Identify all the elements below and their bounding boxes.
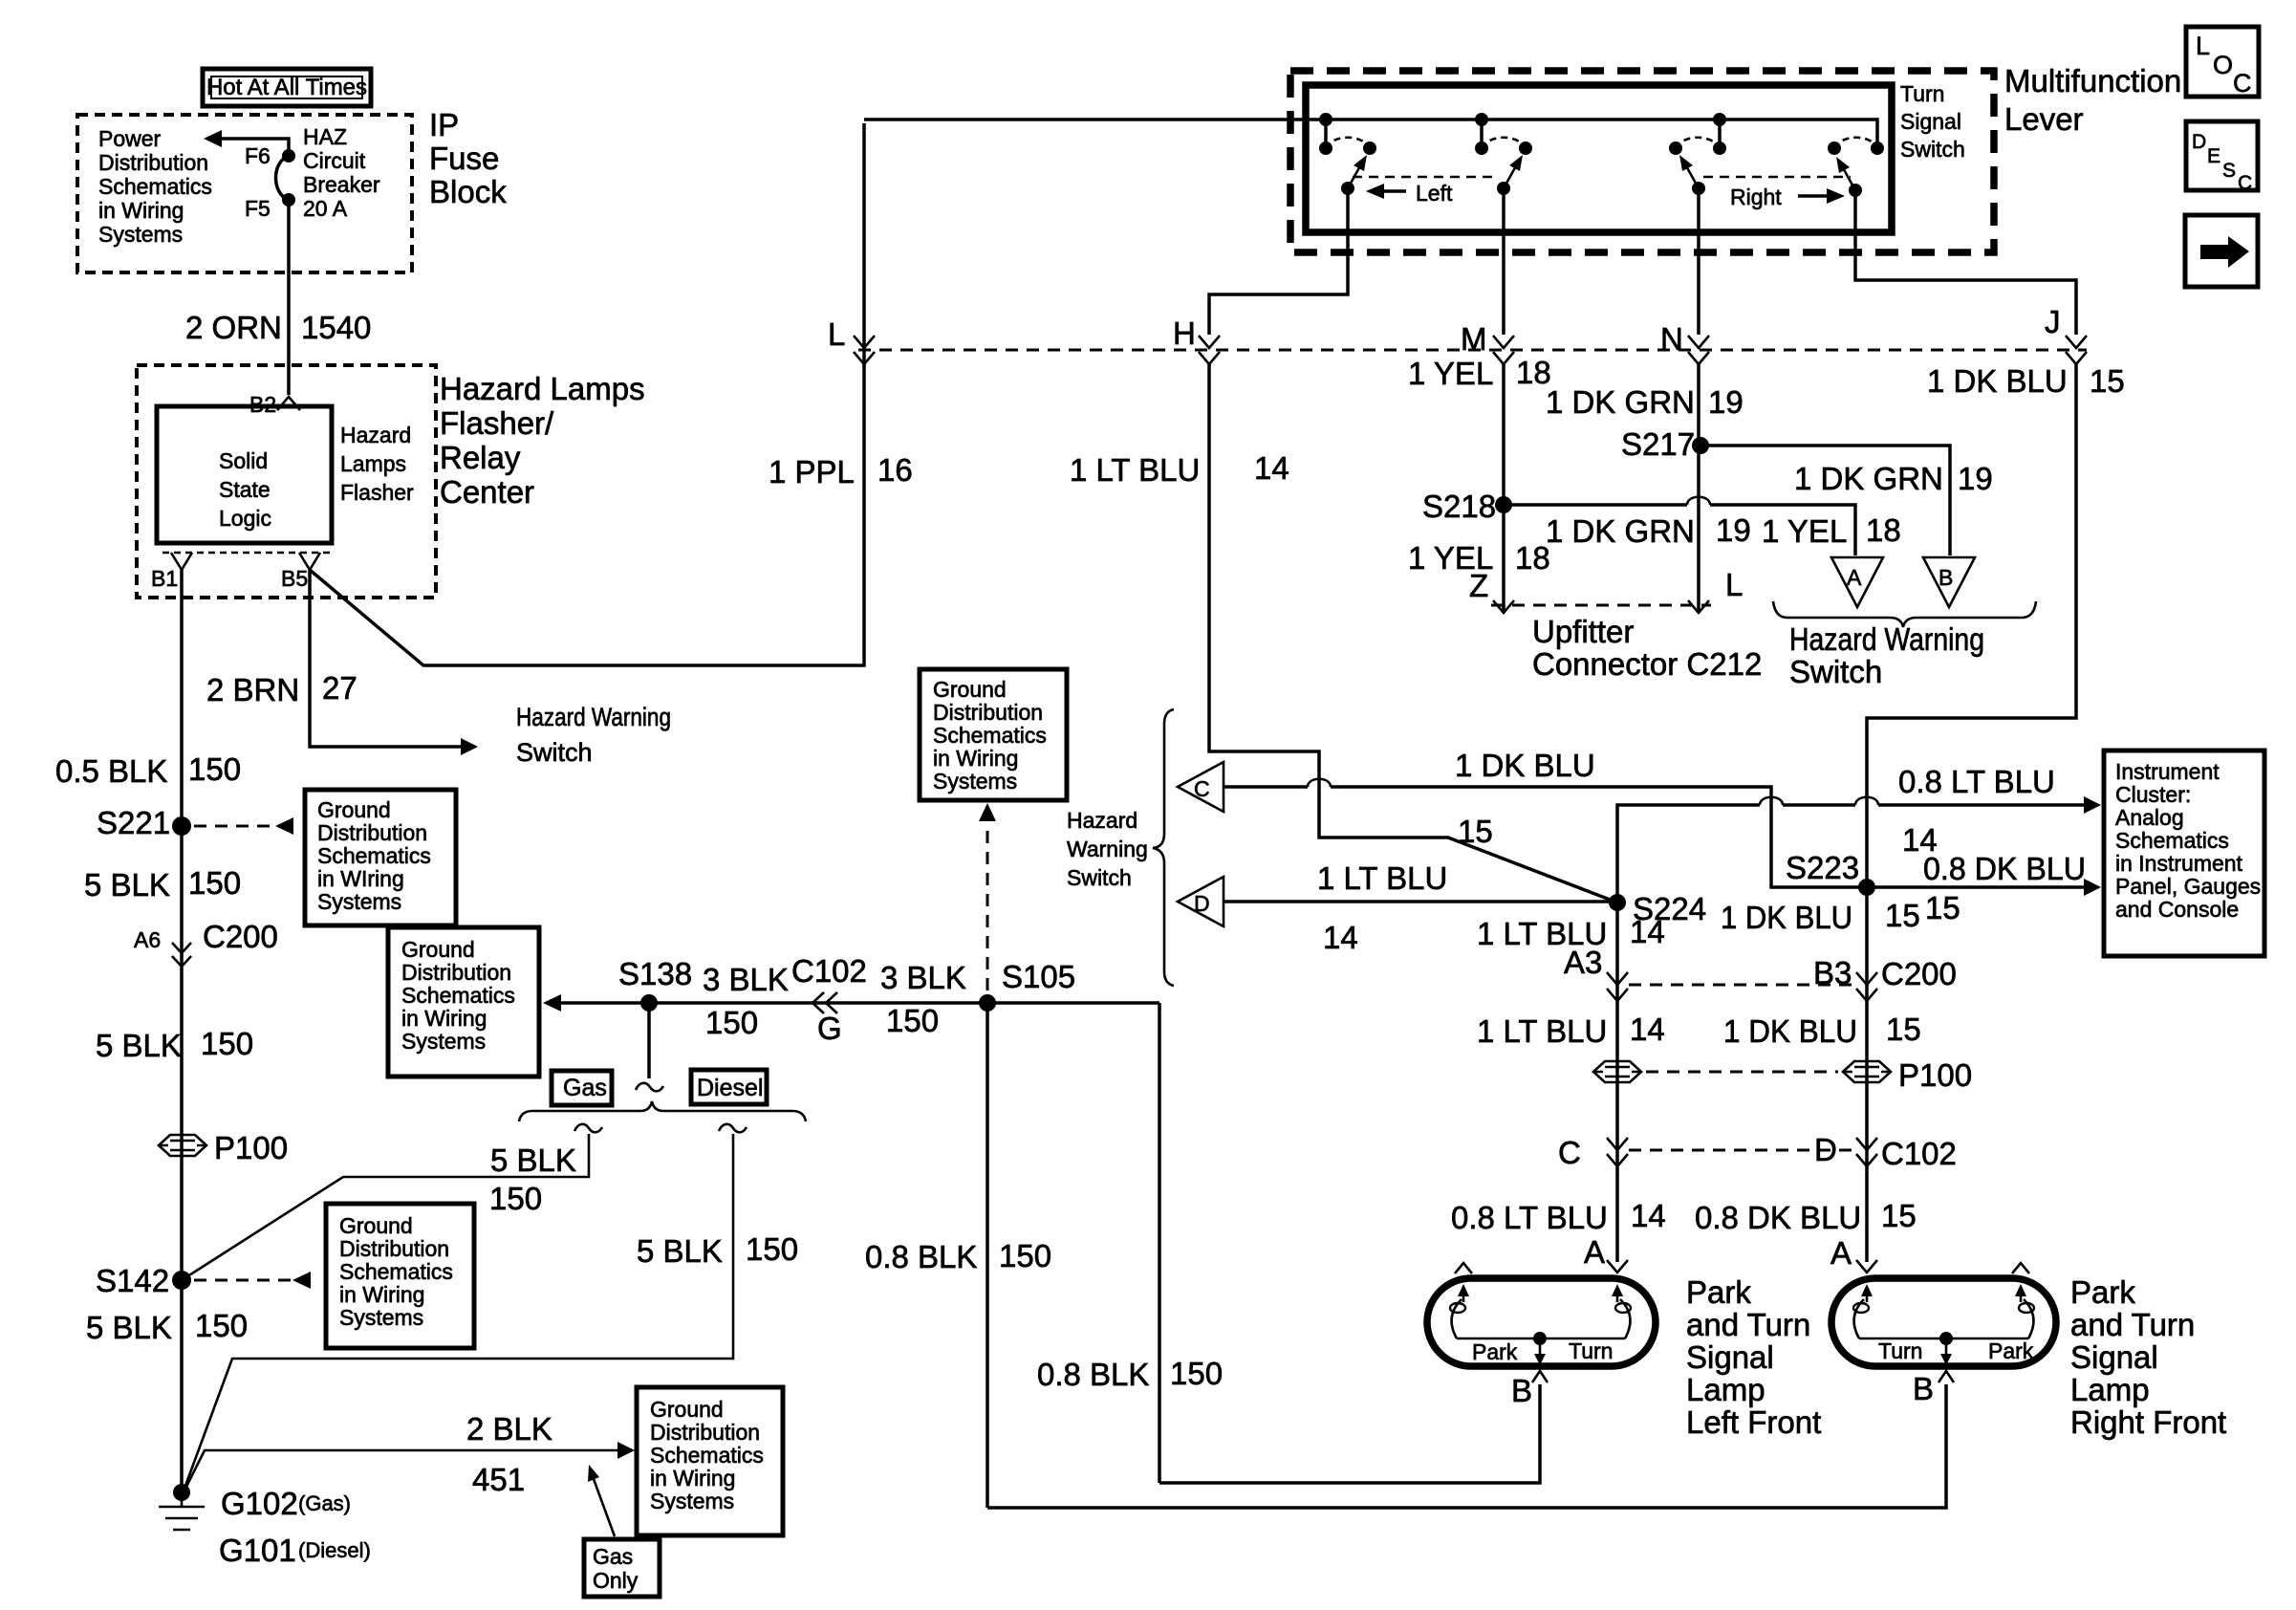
svg-text:1 DK BLU: 1 DK BLU (1455, 748, 1595, 783)
svg-text:15: 15 (1458, 814, 1493, 849)
wire: 0.8 BLK S105 down (986, 1003, 989, 1508)
svg-text:G102: G102 (221, 1486, 298, 1521)
svg-text:Hazard: Hazard (340, 423, 411, 447)
svg-text:Relay: Relay (440, 440, 521, 475)
svg-text:F6: F6 (245, 143, 271, 168)
svg-text:Systems: Systems (98, 222, 183, 247)
switch pole 2 contacts (1475, 113, 1532, 155)
splice S217 (1621, 426, 1709, 462)
svg-text:18: 18 (1515, 540, 1550, 576)
svg-text:Left Front: Left Front (1686, 1404, 1821, 1440)
svg-text:C: C (2233, 69, 2252, 98)
svg-text:20 A: 20 A (303, 196, 348, 221)
dashed reference arrow from S105 up (979, 803, 996, 990)
hazard switch terminal D triangle (1178, 877, 1224, 926)
Power Distribution reference text (98, 126, 212, 247)
svg-text:Breaker: Breaker (303, 172, 380, 197)
pole 3 travel arc (1676, 138, 1720, 148)
pole 1 travel arc (1326, 138, 1370, 148)
DESC box (2186, 121, 2258, 194)
svg-text:C: C (2238, 172, 2252, 194)
svg-text:in WIring: in WIring (317, 866, 404, 891)
wire: C terminal to S223 (1224, 787, 1867, 887)
svg-text:Block: Block (429, 174, 507, 209)
svg-text:S142: S142 (96, 1263, 169, 1298)
C200 dashed line (1629, 984, 1855, 987)
switch pole 3 contacts (1669, 113, 1726, 155)
gas/diesel split squiggle (636, 1083, 663, 1092)
wire: S223 down to lamp (1865, 896, 1869, 1262)
splice S138 (618, 956, 692, 1012)
arrow into Ground Distribution (451) (617, 1442, 635, 1459)
pole 4 travel arc (1834, 138, 1877, 148)
connector H (1173, 315, 1220, 364)
svg-text:L: L (1725, 567, 1743, 602)
svg-text:D: D (2192, 131, 2206, 153)
svg-text:150: 150 (489, 1181, 542, 1216)
node: Hot At All Times box (203, 69, 371, 106)
svg-text:1 DK GRN: 1 DK GRN (1794, 461, 1943, 496)
grommet P100 left (159, 1130, 288, 1165)
connector B1 (151, 553, 192, 598)
splice S105 (979, 959, 1075, 1012)
svg-text:Panel, Gauges: Panel, Gauges (2115, 874, 2261, 899)
svg-text:Ground: Ground (401, 937, 475, 962)
svg-text:2 BLK: 2 BLK (466, 1411, 552, 1447)
hazard warning switch brace (1773, 601, 2036, 627)
svg-text:(Diesel): (Diesel) (298, 1538, 371, 1562)
pole 4 blade (1836, 157, 1862, 197)
svg-text:0.8 DK BLU: 0.8 DK BLU (1923, 851, 2086, 886)
hazard switch terminal A triangle (1831, 557, 1883, 607)
Left arrow (1366, 181, 1453, 206)
wire: ground bus S138 to S105 (561, 1001, 1159, 1005)
right front lamp body (1831, 1278, 2056, 1366)
svg-text:19: 19 (1958, 461, 1993, 496)
Solid State Logic box (157, 406, 332, 543)
diesel branch hook (719, 1124, 747, 1133)
wire: switch feed rail (864, 120, 1877, 144)
svg-text:1 DK GRN: 1 DK GRN (1546, 513, 1695, 549)
svg-text:0.8 BLK: 0.8 BLK (865, 1239, 977, 1274)
jump over H path (1308, 779, 1331, 787)
label G102 (Gas) (221, 1486, 351, 1521)
svg-text:Circuit: Circuit (303, 148, 366, 173)
Hazard Warning Switch label (right) (1789, 621, 1984, 689)
Instrument Cluster reference box (2104, 751, 2264, 956)
svg-text:Park: Park (1472, 1339, 1518, 1364)
Right arrow (1730, 185, 1845, 209)
arrow into instrument cluster (LT BLU) (2084, 796, 2101, 814)
Diesel box (691, 1070, 767, 1104)
svg-text:Turn: Turn (1878, 1338, 1922, 1363)
svg-text:O: O (2213, 51, 2233, 79)
wire: S217 branch to hazard switch B (1700, 446, 1950, 555)
blade link dashed right (1703, 176, 1851, 179)
svg-text:IP: IP (429, 107, 459, 142)
gas/diesel selection brace (519, 1101, 806, 1121)
svg-text:Diesel: Diesel (697, 1075, 763, 1101)
svg-text:Park: Park (1988, 1338, 2034, 1363)
svg-text:Warning: Warning (1067, 837, 1148, 861)
left front lamp body (1427, 1278, 1656, 1366)
svg-text:(Gas): (Gas) (298, 1491, 351, 1515)
svg-text:Signal: Signal (1900, 109, 1961, 134)
svg-text:State: State (219, 477, 271, 502)
svg-text:5 BLK: 5 BLK (490, 1142, 576, 1178)
svg-text:Turn: Turn (1569, 1338, 1613, 1363)
gas branch hook (574, 1124, 602, 1133)
Park and Turn Signal Lamp Left Front label (1686, 1274, 1821, 1440)
right lamp cap caret (2012, 1263, 2029, 1273)
splice S221 (97, 805, 191, 840)
wire: left lamp B ground return (1159, 1384, 1540, 1483)
svg-text:14: 14 (1630, 914, 1665, 949)
svg-text:Upfitter: Upfitter (1532, 614, 1634, 649)
hazard switch terminal C triangle (1178, 762, 1224, 812)
circuit breaker HAZ 20A symbol (276, 156, 290, 200)
svg-text:P100: P100 (214, 1130, 288, 1165)
svg-text:1 LT BLU: 1 LT BLU (1070, 452, 1200, 488)
svg-text:15: 15 (1925, 890, 1960, 925)
arrow from ground line into box (S138) (543, 994, 561, 1012)
svg-text:Systems: Systems (401, 1029, 486, 1054)
svg-text:Hazard Lamps: Hazard Lamps (440, 371, 645, 406)
Ground Distribution reference box (S221) (305, 790, 456, 925)
svg-text:Hazard Warning: Hazard Warning (1789, 621, 1984, 657)
svg-text:Lever: Lever (2004, 101, 2084, 137)
svg-text:150: 150 (1170, 1356, 1223, 1391)
wire: 0.8 DK BLU S223 to instrument cluster (1867, 885, 2084, 889)
svg-text:16: 16 (877, 452, 913, 488)
svg-text:Only: Only (593, 1568, 639, 1593)
svg-text:0.8 LT BLU: 0.8 LT BLU (1451, 1200, 1608, 1235)
svg-text:Schematics: Schematics (339, 1259, 453, 1284)
Ground Distribution reference box (451) (637, 1387, 783, 1535)
arrow from Gas Only to 451 wire (588, 1465, 615, 1536)
grommet P100 (lamp feeds left) (1593, 1061, 1641, 1082)
svg-text:Park: Park (1686, 1274, 1751, 1310)
svg-text:Cluster:: Cluster: (2115, 782, 2191, 807)
svg-text:in Wiring: in Wiring (339, 1282, 424, 1307)
connector B2 (249, 392, 300, 417)
svg-text:L: L (2196, 32, 2210, 60)
pole 2 travel arc (1482, 138, 1526, 148)
wire: ckt 150 B1 down to ground (180, 598, 184, 1492)
svg-text:H: H (1173, 315, 1196, 351)
pole 3 blade (1679, 155, 1705, 195)
switch pole 4 contacts (1828, 141, 1884, 155)
svg-text:3 BLK: 3 BLK (703, 962, 789, 997)
flasher connector dashed line (162, 552, 330, 555)
connector L (828, 316, 875, 364)
svg-text:Turn: Turn (1900, 81, 1944, 106)
svg-text:1 YEL: 1 YEL (1762, 513, 1847, 549)
svg-text:Gas: Gas (593, 1544, 633, 1569)
svg-text:Systems: Systems (933, 769, 1017, 794)
svg-text:14: 14 (1323, 920, 1358, 955)
svg-text:F5: F5 (245, 196, 271, 221)
svg-text:L: L (828, 316, 845, 352)
svg-text:150: 150 (188, 751, 241, 787)
svg-text:Schematics: Schematics (933, 723, 1047, 748)
Multifunction Lever dashed box (1290, 71, 1994, 252)
svg-text:Switch: Switch (516, 738, 593, 767)
svg-text:Ground: Ground (339, 1213, 413, 1238)
wire: S138 down to gas/diesel split (647, 1003, 651, 1078)
wire: M pole2 down (1502, 188, 1505, 335)
svg-text:Hot At All Times: Hot At All Times (206, 75, 367, 100)
svg-text:18: 18 (1866, 512, 1901, 548)
wire: N pole3 down (1697, 188, 1700, 335)
svg-text:A3: A3 (1564, 945, 1602, 980)
connector C200 A3/B3 (1564, 945, 1628, 1001)
svg-text:S138: S138 (618, 956, 692, 991)
svg-text:Switch: Switch (1789, 654, 1882, 689)
svg-text:3 BLK: 3 BLK (880, 960, 966, 995)
svg-text:Ground: Ground (933, 677, 1007, 702)
svg-text:Lamp: Lamp (1686, 1372, 1765, 1407)
connector M (1461, 321, 1514, 364)
Gas Only box (584, 1539, 660, 1597)
connector J (2045, 304, 2087, 364)
svg-text:and Console: and Console (2115, 897, 2239, 922)
svg-text:Distribution: Distribution (317, 820, 427, 845)
svg-text:1540: 1540 (301, 310, 371, 345)
svg-text:G: G (817, 1011, 842, 1046)
connector B left lamp (1511, 1371, 1548, 1408)
svg-text:Right: Right (1730, 185, 1782, 209)
svg-text:Signal: Signal (1686, 1339, 1774, 1375)
node F5 (245, 193, 295, 221)
svg-text:Schematics: Schematics (2115, 828, 2229, 853)
svg-text:in Instrument: in Instrument (2115, 851, 2243, 876)
svg-text:5 BLK: 5 BLK (637, 1233, 723, 1269)
svg-text:1 DK BLU: 1 DK BLU (1723, 1013, 1857, 1049)
svg-text:E: E (2207, 145, 2220, 167)
svg-text:B5: B5 (281, 566, 308, 591)
svg-text:N: N (1660, 321, 1683, 357)
connector A right lamp (1830, 1235, 1877, 1273)
wire: N to L at C212 (1697, 364, 1700, 613)
svg-text:Z: Z (1469, 568, 1488, 603)
Ground Distribution reference box (S138) (388, 927, 539, 1077)
svg-text:150: 150 (886, 1003, 939, 1038)
pole 2 blade (1497, 155, 1523, 195)
svg-text:Solid: Solid (219, 448, 268, 473)
svg-text:Gas: Gas (563, 1075, 607, 1101)
C102 dashed line (1629, 1149, 1855, 1152)
Turn Signal Switch box (1306, 85, 1892, 232)
connector A left lamp (1584, 1234, 1628, 1273)
wire: gas branch from S142 to Gas brace (182, 1134, 589, 1280)
svg-text:5 BLK: 5 BLK (96, 1028, 182, 1063)
svg-text:150: 150 (188, 865, 241, 901)
svg-text:Systems: Systems (339, 1305, 423, 1330)
svg-text:1 PPL: 1 PPL (769, 454, 855, 490)
Multifunction Lever label (2004, 63, 2181, 137)
connector C102 cavity C (1558, 1135, 1628, 1170)
svg-text:Lamps: Lamps (340, 451, 406, 476)
svg-text:14: 14 (1631, 1198, 1666, 1233)
wire: S218 branch to hazard switch A (1504, 505, 1855, 555)
connector N (1660, 321, 1709, 364)
right lamp internals (1853, 1284, 2034, 1365)
svg-text:0.8 LT BLU: 0.8 LT BLU (1898, 764, 2055, 799)
Solid State Logic text (219, 448, 271, 531)
svg-text:B1: B1 (151, 566, 178, 591)
svg-text:Distribution: Distribution (98, 150, 208, 175)
svg-text:0.8 DK BLU: 0.8 DK BLU (1695, 1200, 1861, 1235)
svg-text:19: 19 (1716, 512, 1751, 548)
svg-text:Ground: Ground (650, 1397, 724, 1422)
svg-text:HAZ: HAZ (303, 124, 347, 149)
svg-text:Connector C212: Connector C212 (1532, 646, 1762, 682)
svg-text:150: 150 (746, 1231, 798, 1267)
wire: M to Z at C212 (1502, 364, 1505, 613)
svg-text:Distribution: Distribution (339, 1236, 449, 1261)
splice S218 (1422, 489, 1512, 524)
svg-text:Multifunction: Multifunction (2004, 63, 2181, 98)
wire: B5 feed to turn signal switch (310, 123, 864, 665)
svg-text:in Wiring: in Wiring (98, 198, 184, 223)
wire: feed arrow to Power Distribution (204, 130, 289, 156)
P100 dashed link (1646, 1071, 1838, 1074)
svg-text:Fuse: Fuse (429, 141, 499, 176)
arrow to Hazard Warning Switch (461, 738, 478, 755)
svg-text:S: S (2222, 160, 2236, 182)
wire: J down to S223 (1867, 364, 2076, 887)
svg-text:A6: A6 (134, 927, 161, 952)
Ground Distribution reference box (S105) (920, 669, 1067, 800)
svg-text:Distribution: Distribution (401, 960, 511, 985)
wire: ckt 1540 from F5 to B2 (287, 200, 291, 395)
jump over C drop (1760, 797, 1783, 805)
jump over N wire (1687, 497, 1710, 505)
wire: right lamp B ground return (987, 1384, 1946, 1508)
svg-text:Analog: Analog (2115, 805, 2184, 830)
connector C102 cavity D (1814, 1132, 1957, 1171)
svg-text:C102: C102 (791, 953, 867, 989)
grommet P100 (lamp feeds right) (1843, 1057, 1972, 1093)
connector C200 B3 (1813, 955, 1957, 1001)
svg-text:Hazard Warning: Hazard Warning (516, 703, 671, 731)
wire: D terminal to S224 (1224, 900, 1617, 903)
svg-text:Park: Park (2070, 1274, 2135, 1310)
left lamp cap caret (1455, 1263, 1472, 1273)
svg-text:Distribution: Distribution (650, 1420, 760, 1445)
svg-text:Lamp: Lamp (2070, 1372, 2150, 1407)
svg-text:S218: S218 (1422, 489, 1496, 524)
svg-text:1 DK BLU: 1 DK BLU (1927, 363, 2068, 399)
svg-text:2 ORN: 2 ORN (185, 310, 282, 345)
forward arrow box (2185, 215, 2258, 287)
svg-text:Systems: Systems (317, 889, 401, 914)
connector L (C212) (1688, 567, 1743, 613)
jump over S223 drop (1855, 797, 1878, 805)
svg-text:1 DK GRN: 1 DK GRN (1546, 384, 1695, 420)
svg-text:and Turn: and Turn (1686, 1307, 1810, 1342)
svg-text:Distribution: Distribution (933, 700, 1043, 725)
wire: pole1 to connector H (1209, 188, 1348, 335)
Park and Turn Signal Lamp Right Front label (2070, 1274, 2226, 1440)
hazard switch terminal B triangle (1923, 557, 1975, 607)
svg-text:1 YEL: 1 YEL (1408, 356, 1493, 391)
svg-text:5 BLK: 5 BLK (86, 1310, 172, 1345)
svg-text:Power: Power (98, 126, 162, 151)
arrow into instrument cluster (DK BLU) (2084, 879, 2101, 896)
svg-text:S221: S221 (97, 805, 170, 840)
pole 1 blade (1341, 155, 1367, 195)
svg-text:S223: S223 (1786, 850, 1859, 885)
svg-text:Schematics: Schematics (401, 983, 515, 1008)
Hazard Warning Switch label (left) (516, 703, 671, 767)
svg-text:Center: Center (440, 474, 534, 510)
svg-text:Schematics: Schematics (98, 174, 212, 199)
LOC box (2186, 27, 2259, 98)
node F6 (245, 143, 295, 168)
svg-text:150: 150 (999, 1238, 1051, 1273)
svg-text:15: 15 (1881, 1198, 1917, 1233)
svg-text:A: A (1584, 1234, 1605, 1270)
svg-text:19: 19 (1708, 384, 1744, 420)
svg-text:Switch: Switch (1900, 137, 1965, 162)
svg-text:150: 150 (195, 1308, 248, 1343)
svg-text:27: 27 (322, 670, 357, 706)
hazard warning switch connectors brace (1153, 709, 1174, 986)
connector B right lamp (1913, 1371, 1954, 1406)
svg-text:and Turn: and Turn (2070, 1307, 2195, 1342)
svg-text:1 LT BLU: 1 LT BLU (1317, 860, 1447, 896)
svg-text:M: M (1461, 321, 1487, 357)
switch pole 1 contacts (1319, 113, 1376, 155)
Gas box (552, 1071, 612, 1105)
svg-text:15: 15 (1885, 898, 1920, 933)
connector C200 cavity A6 (134, 919, 278, 967)
svg-text:Switch: Switch (1067, 865, 1132, 890)
svg-text:0.5 BLK: 0.5 BLK (55, 753, 167, 789)
svg-text:B: B (1939, 565, 1953, 590)
wire: 0.8 LT BLU S224 to instrument cluster (1617, 805, 2084, 903)
svg-text:2 BRN: 2 BRN (206, 672, 299, 707)
svg-text:G101: G101 (219, 1533, 296, 1568)
svg-text:A: A (1847, 565, 1862, 590)
Hazard Lamps Flasher/Relay Center label (440, 371, 645, 510)
dashed reference arrow from S221 (194, 817, 293, 835)
splice S223 (1786, 850, 1875, 896)
svg-text:Ground: Ground (317, 797, 391, 822)
wire: S224 down to lamp (1615, 903, 1619, 1262)
Upfitter Connector C212 label (1532, 614, 1762, 682)
bulkhead connector dashed line (858, 349, 2087, 352)
svg-text:Flasher: Flasher (340, 480, 414, 505)
svg-text:D: D (1194, 891, 1210, 916)
svg-text:Left: Left (1416, 181, 1453, 206)
svg-text:Hazard: Hazard (1067, 808, 1137, 833)
wire: ckt 451 2 BLK from ground (184, 1450, 617, 1492)
connector Z (1469, 568, 1514, 613)
svg-text:1 DK BLU: 1 DK BLU (1721, 900, 1852, 935)
blade link dashed left (1353, 176, 1499, 179)
Hazard Lamps Flasher label (340, 423, 414, 505)
Ground Distribution reference box (S142) (326, 1204, 474, 1348)
svg-text:C: C (1194, 776, 1210, 801)
svg-text:0.8 BLK: 0.8 BLK (1037, 1357, 1149, 1392)
svg-text:in Wiring: in Wiring (650, 1466, 735, 1490)
svg-text:S217: S217 (1621, 426, 1695, 462)
Turn Signal Switch label (1900, 81, 1965, 162)
svg-text:C: C (1558, 1135, 1581, 1170)
